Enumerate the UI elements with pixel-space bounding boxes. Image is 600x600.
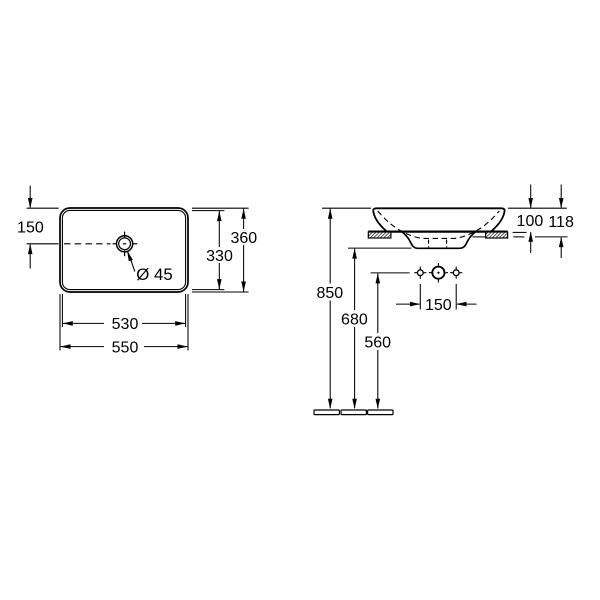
svg-text:530: 530 xyxy=(112,316,139,333)
svg-text:550: 550 xyxy=(112,339,139,356)
svg-text:118: 118 xyxy=(548,214,574,231)
svg-text:330: 330 xyxy=(206,248,233,265)
svg-text:850: 850 xyxy=(316,285,343,302)
svg-text:150: 150 xyxy=(425,297,452,314)
svg-text:150: 150 xyxy=(17,219,44,236)
svg-text:680: 680 xyxy=(341,311,368,328)
svg-text:Ø 45: Ø 45 xyxy=(136,265,172,284)
svg-text:100: 100 xyxy=(517,213,544,230)
svg-text:360: 360 xyxy=(230,230,257,247)
svg-text:560: 560 xyxy=(364,334,391,351)
